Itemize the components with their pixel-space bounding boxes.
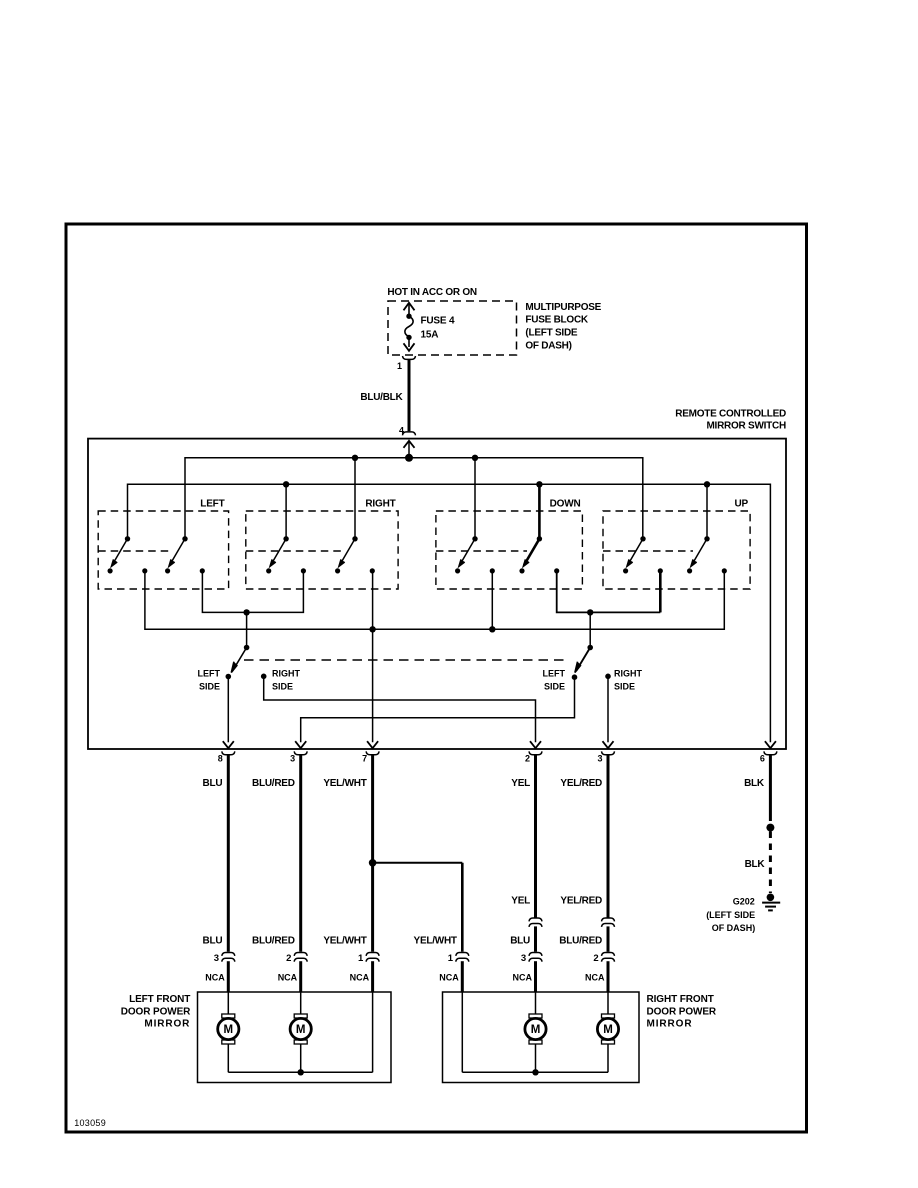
wire bus 2 [128, 484, 771, 742]
wire bus2 feed to DOWN sw2 (bold) [538, 484, 541, 539]
junction dot YEL/WHT branch [369, 859, 377, 867]
svg-text:SIDE: SIDE [544, 681, 565, 691]
connector pin 8 at switch box bottom [218, 741, 235, 763]
mirror connector pin 3 on wire x=228.3 [214, 953, 235, 964]
svg-text:4: 4 [399, 426, 404, 436]
wire into mirror box at x=462.3 [461, 961, 464, 992]
svg-text:RIGHT: RIGHT [272, 669, 301, 679]
svg-text:2: 2 [593, 953, 598, 964]
wire left RIGHT SIDE contact to pin 2 [264, 676, 536, 742]
svg-text:BLU: BLU [202, 778, 222, 789]
svg-text:FUSE BLOCK: FUSE BLOCK [525, 315, 589, 326]
wire into mirror box at x=608.0 [607, 961, 610, 992]
svg-text:YEL: YEL [511, 895, 530, 906]
wire YEL/WHT inside right mirror box [461, 992, 463, 1072]
switch DOWN sw1 blade [455, 536, 495, 573]
svg-text:LEFT FRONT: LEFT FRONT [129, 994, 190, 1005]
junction dots on bus 1 [352, 454, 478, 462]
page border frame [66, 224, 807, 1132]
dashed box RIGHT section [246, 511, 398, 589]
mirror connector pin 2 on wire x=300.7 [286, 953, 307, 964]
wire into mirror box at x=228.3 [227, 961, 230, 992]
junction dots on bus 2 [283, 481, 710, 487]
svg-text:2: 2 [286, 953, 291, 964]
wire right RIGHT SIDE contact to pin 3 (right) [607, 676, 609, 742]
svg-text:OF DASH): OF DASH) [525, 341, 571, 352]
label FUSE 4 / 15A [421, 316, 455, 341]
junction dot left crossbar [243, 609, 249, 615]
label RIGHT FRONT DOOR POWER MIRROR [647, 994, 717, 1030]
connector pin 4 of mirror switch [399, 426, 416, 436]
dashed box UP section [603, 511, 750, 589]
selector switch right (LEFT SIDE / RIGHT SIDE) [572, 645, 593, 680]
svg-text:SIDE: SIDE [614, 681, 635, 691]
left front door power mirror box [198, 992, 392, 1083]
svg-text:YEL/RED: YEL/RED [560, 778, 602, 789]
wire BLK dashed to ground [769, 832, 772, 894]
wire YEL/WHT branch horizontal [373, 862, 463, 864]
svg-text:M: M [603, 1024, 613, 1036]
svg-text:LEFT: LEFT [200, 498, 224, 509]
svg-text:REMOTE CONTROLLED: REMOTE CONTROLLED [675, 408, 786, 419]
wire common bus right mirror box [462, 1071, 608, 1073]
motor right mirror left/right [525, 992, 546, 1072]
wire bus1 feed to DOWN sw1 [474, 458, 476, 539]
svg-text:SIDE: SIDE [272, 681, 293, 691]
connector pin 1 of fuse block [397, 356, 416, 371]
svg-text:UP: UP [735, 498, 749, 509]
label LEFT SIDE (right selector) [543, 669, 566, 692]
connector pin 2 at switch box bottom [525, 741, 542, 763]
svg-text:YEL: YEL [511, 778, 530, 789]
svg-text:LEFT: LEFT [198, 669, 221, 679]
svg-text:BLU: BLU [202, 936, 222, 947]
mirror switch box [88, 439, 786, 749]
junction dot right mirror bus [532, 1069, 538, 1075]
wire bus2 feed to RIGHT sw1 [285, 484, 287, 539]
svg-text:NCA: NCA [205, 973, 225, 983]
mirror connector pin 3 on wire x=535.5 [521, 953, 542, 964]
motor left mirror up/down [290, 992, 311, 1072]
connector pin 6 at switch box bottom [760, 741, 777, 763]
label G202 (LEFT SIDE OF DASH) [706, 896, 755, 933]
svg-text:7: 7 [362, 753, 367, 763]
label LEFT FRONT DOOR POWER MIRROR [121, 994, 191, 1030]
svg-text:NCA: NCA [278, 973, 298, 983]
svg-text:BLU: BLU [510, 936, 530, 947]
connector pin 3 at switch box bottom [597, 741, 614, 763]
label LEFT SIDE (left selector) [198, 669, 221, 692]
svg-text:BLK: BLK [744, 778, 765, 789]
dashed inner line LEFT [98, 550, 173, 552]
svg-text:BLK: BLK [745, 859, 766, 870]
svg-text:FUSE 4: FUSE 4 [421, 316, 455, 327]
svg-text:(LEFT SIDE: (LEFT SIDE [525, 328, 578, 339]
wire DOWN sw1 stationary drop [491, 571, 493, 629]
wire into mirror box at x=372.6 [371, 961, 374, 992]
wire left crossbar to left selector [246, 612, 248, 647]
contact RIGHT SIDE (right selector) [605, 674, 611, 680]
label REMOTE CONTROLLED MIRROR SWITCH [675, 408, 786, 431]
wire BLU below switch [227, 754, 230, 952]
switch LEFT sw1 blade [108, 536, 148, 573]
svg-text:MULTIPURPOSE: MULTIPURPOSE [525, 302, 601, 313]
wire into mirror box at x=535.5 [534, 961, 537, 992]
svg-text:HOT IN ACC OR ON: HOT IN ACC OR ON [387, 287, 477, 298]
svg-text:M: M [531, 1024, 541, 1036]
fuse F4 15A symbol [404, 303, 415, 351]
wire YEL below switch [534, 754, 537, 918]
connector pin 7 at switch box bottom [362, 741, 379, 763]
svg-text:NCA: NCA [513, 973, 533, 983]
svg-text:NCA: NCA [585, 973, 605, 983]
svg-text:1: 1 [448, 953, 454, 964]
svg-text:3: 3 [214, 953, 219, 964]
labels YEL YEL/RED mid row [511, 895, 602, 906]
wire right crossbar to right selector [589, 612, 591, 647]
svg-text:MIRROR: MIRROR [144, 1019, 190, 1030]
junction dots on long bar [369, 626, 495, 632]
svg-text:6: 6 [760, 753, 765, 763]
svg-text:DOOR POWER: DOOR POWER [121, 1006, 191, 1017]
wire net LEFT sw2 / RIGHT sw1 crossbar [202, 571, 303, 613]
connector pin 3 at switch box bottom [290, 741, 307, 763]
motor right mirror up/down [597, 992, 618, 1072]
svg-text:YEL/WHT: YEL/WHT [323, 936, 366, 947]
fuse block dashed box [388, 301, 517, 355]
motor left mirror left/right [218, 992, 239, 1072]
wire YEL/WHT inside left mirror box [372, 992, 374, 1072]
dashed inner line UP [603, 550, 693, 552]
junction dot right crossbar [587, 609, 593, 615]
selector switch left (LEFT SIDE / RIGHT SIDE) [226, 645, 250, 680]
svg-text:3: 3 [290, 753, 295, 763]
ground G202 symbol [762, 894, 780, 911]
wire into mirror box at x=300.7 [299, 961, 302, 992]
labels wire colors row below switch box [202, 778, 764, 789]
wire pin4 entry with up arrow [404, 441, 415, 458]
label RIGHT SIDE (right selector) [614, 669, 643, 692]
svg-text:YEL/WHT: YEL/WHT [323, 778, 366, 789]
junction dot left mirror bus [298, 1069, 304, 1075]
junction dot BLK wire [766, 824, 774, 832]
wire BLU/RED (right) between connectors [607, 926, 610, 951]
dashed box LEFT section [98, 511, 228, 589]
wire BLK below switch [769, 754, 772, 821]
svg-text:LEFT: LEFT [543, 669, 566, 679]
svg-text:8: 8 [218, 753, 223, 763]
mirror connector pin 1 on wire x=462.3 [448, 953, 469, 964]
switch RIGHT sw2 blade [335, 536, 375, 573]
inline connector on YEL wire [529, 918, 542, 927]
svg-text:M: M [224, 1024, 234, 1036]
label MULTIPURPOSE FUSE BLOCK (LEFT SIDE OF DASH) [525, 302, 601, 352]
svg-text:MIRROR SWITCH: MIRROR SWITCH [706, 421, 786, 432]
svg-text:103059: 103059 [74, 1118, 106, 1128]
svg-text:15A: 15A [421, 330, 439, 341]
svg-text:SIDE: SIDE [199, 681, 220, 691]
wire net DOWN sw2 / UP sw1 crossbar (bold) [557, 571, 661, 613]
wire bus1 feed to RIGHT sw2 [354, 458, 356, 539]
wire YEL/WHT branch vertical [461, 863, 464, 952]
switch UP sw1 blade [623, 536, 663, 573]
svg-text:BLU/RED: BLU/RED [559, 936, 602, 947]
svg-text:DOWN: DOWN [550, 498, 581, 509]
labels wire colors row above mirror connectors [202, 936, 602, 947]
svg-text:RIGHT FRONT: RIGHT FRONT [647, 994, 714, 1005]
svg-text:NCA: NCA [350, 973, 370, 983]
wire BLU/RED below switch [299, 754, 302, 952]
switch DOWN sw2 blade [519, 536, 559, 573]
svg-text:NCA: NCA [439, 973, 459, 983]
mirror connector pin 1 on wire x=372.6 [358, 953, 379, 964]
contact RIGHT SIDE (left selector) [261, 674, 267, 680]
inline connector on YEL/RED wire [602, 918, 615, 927]
label RIGHT SIDE (left selector) [272, 669, 301, 692]
wire YEL/RED below switch [607, 754, 610, 918]
wire right selector to pin 3 (left) [301, 677, 575, 742]
svg-text:BLU/RED: BLU/RED [252, 936, 295, 947]
dashed inner line RIGHT [246, 550, 343, 552]
svg-text:BLU/RED: BLU/RED [252, 778, 295, 789]
svg-text:YEL/WHT: YEL/WHT [414, 936, 457, 947]
dashed box DOWN section [436, 511, 583, 589]
wire BLU (right) between connectors [534, 926, 537, 951]
wire left selector to pin 8 [227, 677, 229, 743]
svg-text:MIRROR: MIRROR [647, 1019, 693, 1030]
svg-text:G202: G202 [733, 896, 755, 906]
svg-text:M: M [296, 1024, 306, 1036]
svg-text:3: 3 [597, 753, 602, 763]
wire net LEFT sw1 / UP sw2 long bar [145, 571, 724, 629]
dashed mechanical link between selectors [244, 659, 566, 661]
wire RIGHT sw2 stationary to pin 7 [372, 571, 374, 742]
dashed inner line DOWN [436, 550, 527, 552]
svg-text:2: 2 [525, 753, 530, 763]
wire bus2 feed to UP sw2 [706, 484, 708, 539]
wire YEL/WHT below switch [371, 754, 374, 952]
switch LEFT sw2 blade [165, 536, 205, 573]
svg-text:YEL/RED: YEL/RED [560, 895, 602, 906]
svg-text:1: 1 [358, 953, 364, 964]
wire common bus left mirror box [228, 1071, 372, 1073]
wire power bus 1 [185, 458, 643, 539]
wire BLU/BLK from fuse to switch pin 4 [408, 360, 411, 432]
svg-text:(LEFT SIDE: (LEFT SIDE [706, 910, 755, 920]
mirror connector pin 2 on wire x=608.0 [593, 953, 614, 964]
switch UP sw2 blade [687, 536, 727, 573]
svg-text:RIGHT: RIGHT [365, 498, 395, 509]
svg-text:1: 1 [397, 361, 402, 371]
switch RIGHT sw1 blade [266, 536, 306, 573]
svg-text:DOOR POWER: DOOR POWER [647, 1006, 717, 1017]
svg-text:BLU/BLK: BLU/BLK [360, 392, 403, 403]
svg-text:RIGHT: RIGHT [614, 669, 643, 679]
svg-text:OF DASH): OF DASH) [712, 923, 756, 933]
right front door power mirror box [443, 992, 640, 1083]
svg-text:3: 3 [521, 953, 526, 964]
